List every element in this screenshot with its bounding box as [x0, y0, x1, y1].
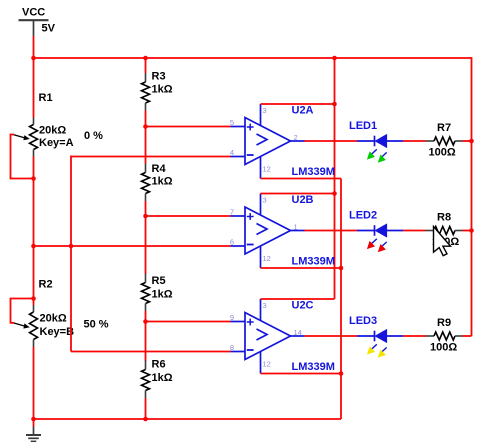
svg-text:1kΩ: 1kΩ [152, 372, 173, 384]
wire U2A out to LED1 [305, 140, 358, 142]
wire LED2 to R8 [403, 230, 426, 232]
LED LED1 [349, 120, 403, 163]
svg-text:4: 4 [230, 148, 234, 157]
svg-text:3: 3 [263, 301, 267, 310]
node R6 bottom [143, 417, 148, 422]
node U2B pin3 [332, 191, 337, 196]
wire pin6 net: rail tap to U2B - [34, 245, 231, 247]
wire bottom ground return [34, 418, 342, 420]
svg-text:5: 5 [230, 118, 234, 127]
svg-text:R6: R6 [152, 359, 166, 371]
node R2 wiper to rail [31, 296, 36, 301]
node R8/right bus [469, 228, 474, 233]
wire R2 wiper loop [11, 299, 34, 323]
svg-text:LED3: LED3 [349, 315, 377, 327]
wire pin5 net: R3/R4 to U2A + [146, 126, 231, 128]
node U2A pin3 [332, 102, 337, 107]
svg-text:R5: R5 [152, 275, 166, 287]
wire pin7 net: R4/R5 to U2B + [146, 215, 231, 217]
wire ladder top [145, 58, 147, 73]
wire R7 to right bus [463, 140, 472, 142]
LED LED2 [349, 210, 403, 253]
potentiometer R2 20k Key=B [13, 279, 74, 348]
svg-text:U2B: U2B [292, 194, 314, 206]
potentiometer R1 20k Key=A [13, 92, 74, 157]
node R3/R4 (pin5 net) [143, 124, 148, 129]
svg-text:LED1: LED1 [349, 120, 377, 132]
mouse cursor [434, 227, 451, 256]
wire U2A pin3 to VCC bus [261, 103, 335, 105]
svg-text:12: 12 [263, 360, 271, 369]
svg-text:LM339M: LM339M [292, 166, 335, 178]
resistor R9 100Ω [426, 317, 463, 354]
wire pin9 net: R5/R6 to U2C + [146, 321, 231, 323]
svg-text:50 %: 50 % [84, 319, 109, 331]
node measurement net junction [69, 244, 74, 249]
wire U2B out to LED2 [305, 230, 358, 232]
node rail tap (pin6) [31, 244, 36, 249]
svg-text:9: 9 [230, 313, 234, 322]
wire left rail R1 bottom to R2 top [33, 157, 35, 306]
wire R9 to right bus [463, 335, 472, 337]
svg-text:LED2: LED2 [349, 210, 377, 222]
svg-text:LM339M: LM339M [292, 361, 335, 373]
wire VCC stub to rail [33, 36, 35, 118]
node R5/R6 (pin9 net) [143, 319, 148, 324]
svg-text:R2: R2 [39, 279, 53, 291]
svg-text:20kΩ: 20kΩ [39, 125, 66, 137]
svg-text:20kΩ: 20kΩ [40, 313, 67, 325]
svg-text:1kΩ: 1kΩ [152, 176, 173, 188]
wire top VCC bus [34, 57, 472, 59]
wire node to R6 [145, 322, 147, 362]
wire node to R5 [145, 216, 147, 274]
LED LED3 [349, 315, 403, 358]
node R4/R5 (pin7 net) [143, 214, 148, 219]
wire U2B pin3 to VCC bus [261, 193, 335, 195]
svg-text:12: 12 [263, 254, 271, 263]
svg-text:R4: R4 [152, 163, 167, 175]
resistor R3 1kΩ [142, 71, 173, 111]
wire R6 to ground bus [145, 398, 147, 419]
resistor R7 100Ω [426, 122, 463, 159]
op-amp U2B (7=+in, 6=-in, 1=out, 3=V+, 12=V-) [230, 194, 335, 269]
svg-text:U2A: U2A [292, 105, 314, 117]
svg-text:14: 14 [294, 328, 302, 337]
wire VCC supply bus vertical [334, 58, 336, 299]
svg-text:8: 8 [230, 343, 234, 352]
svg-text:Key=B: Key=B [40, 326, 75, 338]
wire U2C pin12 [261, 373, 342, 375]
node: VCC junction to top bus [31, 56, 36, 61]
svg-text:5V: 5V [42, 23, 56, 35]
svg-text:1kΩ: 1kΩ [152, 84, 173, 96]
resistor R5 1kΩ [142, 274, 173, 312]
wire left rail R2 bottom to ground [33, 347, 35, 427]
wire measurement net vertical (pins 4,6,8) [70, 156, 72, 352]
op-amp U2A (5=+in, 4=-in, 2=out, 3=V+, 12=V-) [230, 104, 335, 179]
svg-text:100Ω: 100Ω [429, 147, 456, 159]
wire R8 to right bus [463, 230, 472, 232]
wire right bus (to R7/R8/R9) [471, 57, 473, 336]
resistor R4 1kΩ [142, 163, 173, 201]
wire node to R4 [145, 127, 147, 164]
wire R3 to node [145, 111, 147, 127]
node VCC supply bus tap [332, 56, 337, 61]
svg-text:12: 12 [263, 165, 271, 174]
svg-text:3: 3 [263, 106, 267, 115]
svg-text:R7: R7 [437, 122, 451, 134]
svg-text:6: 6 [230, 238, 234, 247]
svg-text:3: 3 [263, 196, 267, 205]
wire LED3 to R9 [403, 335, 426, 337]
wire U2C pin3 to VCC bus [261, 298, 335, 300]
wire R4 to node [145, 201, 147, 216]
svg-text:1kΩ: 1kΩ [152, 289, 173, 301]
svg-text:U2C: U2C [292, 300, 314, 312]
wire pin4 net: horizontal to U2A - [71, 156, 231, 158]
svg-text:7: 7 [230, 208, 234, 217]
op-amp U2C (9=+in, 8=-in, 14=out, 3=V+, 12=V-) [230, 299, 335, 374]
svg-text:2: 2 [294, 133, 298, 142]
svg-text:100Ω: 100Ω [430, 342, 457, 354]
wire R1 wiper loop [11, 135, 34, 179]
wire R5 to node [145, 311, 147, 322]
power VCC 5V [19, 7, 56, 37]
svg-text:R9: R9 [437, 317, 451, 329]
svg-text:1: 1 [294, 223, 298, 232]
wire U2A pin12 to ground bus [261, 178, 342, 180]
svg-text:VCC: VCC [22, 7, 45, 19]
wire LED1 to R7 [403, 140, 426, 142]
node U2C pin12 [339, 371, 344, 376]
wire U2C out to LED3 [305, 335, 358, 337]
node R7/right bus [469, 139, 474, 144]
node R3 top [143, 56, 148, 61]
wire U2B pin12 [261, 267, 342, 269]
svg-text:R8: R8 [437, 212, 451, 224]
wire pin8 net: to U2C - [71, 351, 231, 353]
svg-text:0 %: 0 % [84, 130, 103, 142]
svg-text:Key=A: Key=A [39, 137, 74, 149]
resistor R8 100Ω [426, 212, 463, 249]
node ground junction [31, 417, 36, 422]
node U2B pin12 [339, 266, 344, 271]
node R1 wiper to rail [31, 176, 36, 181]
svg-text:R1: R1 [39, 92, 53, 104]
svg-text:LM339M: LM339M [292, 256, 335, 268]
ground [26, 427, 41, 442]
resistor R6 1kΩ [142, 359, 173, 399]
svg-text:R3: R3 [152, 71, 166, 83]
wire ground bus vertical [340, 179, 342, 420]
